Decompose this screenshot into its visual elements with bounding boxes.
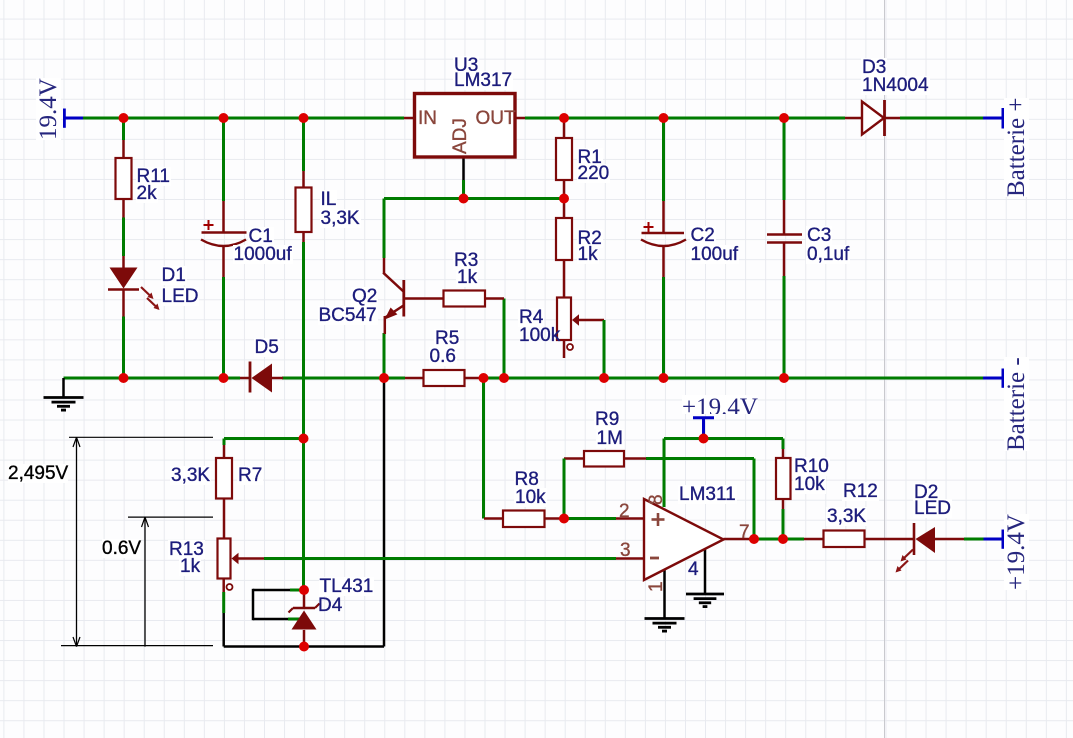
label 1N4004	[861, 76, 930, 95]
ground symbol LM311 pin4	[686, 593, 724, 596]
label C1	[248, 227, 274, 246]
wire R3 right lead	[485, 297, 504, 300]
label TL431	[319, 577, 375, 596]
resistor R3 body	[444, 291, 486, 307]
wire R8 drop from bus	[482, 378, 485, 519]
capacitor C1 body	[202, 231, 247, 234]
resistor R5 body	[424, 370, 465, 386]
LM311 pin2 plus sign	[652, 518, 665, 521]
wire Q2 collector drop	[383, 199, 386, 259]
label BC547	[318, 306, 378, 325]
label R10	[793, 457, 830, 476]
capacitor C2 body	[642, 232, 685, 235]
pin label IN	[418, 109, 437, 128]
potentiometer R13 body	[218, 539, 231, 579]
wire black drop from bus to bottom node	[383, 378, 386, 647]
junction dots TL431	[299, 585, 309, 595]
pin number 8 rotated	[647, 494, 666, 505]
label U3	[453, 56, 479, 75]
wire R9 feedback to output	[646, 457, 754, 460]
terminal 19.4V (blue)	[64, 117, 83, 120]
wire LM311 output row	[724, 538, 750, 541]
wire D3 leads	[845, 117, 862, 120]
label D1	[161, 266, 187, 285]
label R5	[434, 329, 460, 348]
wire R10 bottom lead	[782, 499, 785, 509]
diode D1 LED emission arrows	[141, 287, 152, 298]
resistor R10 body	[776, 458, 791, 499]
junction dot R7 node	[299, 434, 309, 444]
wire R3 to bus drop	[503, 299, 506, 379]
diode D3 1N4004 body	[862, 102, 884, 135]
label 1k	[179, 557, 201, 576]
wire R13 bottom	[222, 579, 225, 593]
wire R9/pin2 node drop	[563, 459, 566, 519]
label R7	[237, 466, 263, 485]
label R11	[136, 167, 171, 186]
capacitor C3 body	[767, 233, 802, 236]
wire R10 top lead	[782, 439, 785, 450]
label 3,3K	[826, 507, 867, 526]
measurement label 0.6V	[102, 539, 141, 558]
ground symbol bottom left	[44, 396, 84, 399]
power symbol +19.4V (blue)	[693, 416, 714, 419]
terminal Batterie + (blue)	[983, 117, 1003, 120]
net label Batterie + rotated	[1004, 98, 1029, 197]
potentiometer R4 body	[557, 298, 571, 341]
wire U3 IN/OUT pin leads	[404, 117, 415, 120]
potentiometer R13 open pin circle	[227, 584, 233, 590]
label R1	[577, 148, 603, 167]
zener D4 TL431 body	[292, 611, 317, 630]
wire ground stem left	[62, 378, 65, 398]
label 100uf	[690, 245, 740, 264]
wire C2 column	[662, 118, 665, 201]
wire D2 to terminal	[935, 538, 964, 541]
potentiometer R13 wiper arrow	[232, 553, 239, 564]
wire R7 node row (2.495V)	[224, 437, 304, 440]
label R13	[168, 540, 205, 559]
wire R11 column	[122, 118, 125, 140]
resistor R12 body	[824, 531, 865, 548]
label C3	[806, 226, 832, 245]
wire Batterie- bus right	[484, 377, 984, 380]
resistor R11 body	[116, 158, 132, 199]
wire C1 column	[222, 118, 225, 201]
power label +19.4V	[682, 395, 758, 414]
pin number 1 rotated	[647, 581, 666, 592]
wire Q2 emitter drop	[383, 333, 386, 378]
label 10k	[793, 475, 826, 494]
pin number 2	[619, 502, 630, 521]
junction dots output node	[749, 534, 759, 544]
diode D1 LED	[110, 268, 138, 289]
junction dots Batterie- bus	[119, 373, 129, 383]
wire R8 left lead	[484, 517, 503, 520]
wire R2 leads	[563, 199, 566, 219]
label 1000uf	[233, 245, 293, 264]
label 1k	[456, 268, 478, 287]
wire TL431 ref loop (black)	[253, 589, 290, 592]
label R2	[577, 229, 603, 248]
label R12	[842, 482, 879, 501]
label 3,3K	[170, 466, 211, 485]
label IL	[320, 190, 338, 209]
junction dots top bus	[119, 113, 129, 123]
wire ADJ row	[384, 197, 564, 200]
label C2	[690, 226, 716, 245]
diode D2 LED body	[913, 523, 916, 555]
label D2	[913, 483, 939, 502]
wire R12 to D2	[865, 538, 915, 541]
regulator U3 LM317 body	[415, 94, 516, 158]
label LED	[161, 287, 200, 306]
label 10k	[514, 488, 547, 507]
op-amp comparator LM311 triangle	[644, 499, 724, 580]
resistor R2 body	[556, 218, 572, 260]
wire TL431 cathode stub	[303, 590, 306, 608]
label 0.6	[429, 347, 457, 366]
wire D5 leads	[240, 377, 250, 380]
label 1k	[577, 245, 599, 264]
wire C3 column	[783, 118, 786, 200]
terminal +19.4V bottom right (blue)	[984, 538, 1004, 541]
wire R4 bottom stub	[563, 340, 566, 358]
wire LM311 pin8 supply	[663, 439, 666, 508]
diode D5 body	[249, 362, 252, 393]
pin number 3	[620, 541, 631, 560]
wire R1 leads	[563, 118, 566, 138]
label LM317	[453, 71, 513, 90]
wire pin2 row	[545, 517, 562, 520]
label D3	[861, 58, 887, 77]
measurement arrow 0.6V vertical	[144, 517, 146, 647]
label R9	[594, 410, 620, 429]
wire D3 cathode to Batterie+ terminal	[900, 117, 983, 120]
ground symbol LM311 pin1	[645, 617, 685, 620]
label 100k (R4)	[519, 326, 560, 345]
junction dot +19.4V power	[699, 434, 709, 444]
label LM311	[678, 485, 737, 504]
label D4	[318, 596, 342, 615]
potentiometer R4 wiper arrow	[572, 314, 579, 325]
resistor R1 body	[556, 138, 572, 180]
darker grid line	[884, 0, 885, 738]
pin label ADJ rotated	[451, 118, 470, 154]
measurement line bottom	[61, 645, 213, 647]
measurement label 2,495V	[8, 464, 68, 483]
resistor R8 body	[503, 511, 545, 528]
potentiometer R4 open pin circle	[567, 344, 573, 350]
wire Batterie- bus left	[64, 377, 241, 380]
wire top bus right segment (OUT to D3)	[525, 117, 845, 120]
label R8	[514, 470, 540, 489]
pin number 7	[739, 523, 750, 542]
junction dots ADJ row	[459, 194, 469, 204]
wire ADJ pin stub	[462, 157, 465, 180]
wire TL431 anode stub	[303, 630, 306, 647]
wire Batterie- bus middle	[282, 377, 405, 380]
measurement arrow 2.495V vertical	[76, 437, 78, 646]
net label +19.4V rotated	[1004, 514, 1029, 590]
terminal Batterie - (blue)	[983, 377, 1003, 380]
label Q2	[351, 287, 378, 306]
label 1M	[596, 429, 624, 448]
label 2k	[136, 184, 158, 203]
wire bottom node (black)	[224, 645, 384, 648]
pin label OUT	[476, 109, 516, 128]
wire IL column / TL431 cathode net	[302, 118, 305, 171]
wire R9 leads	[564, 457, 584, 460]
wire R13 wiper to LM311 pin3	[238, 557, 264, 560]
label 3,3K	[320, 209, 361, 228]
diode D2 LED emission arrows	[902, 550, 913, 561]
label D5	[254, 338, 280, 357]
resistor R7 body	[216, 458, 232, 499]
resistor R9 body	[584, 451, 624, 467]
label LED	[913, 499, 952, 518]
pin number 4	[688, 560, 699, 579]
measurement line top 2.495V	[69, 436, 213, 438]
wire LM311 pin1 stem	[663, 569, 666, 619]
wire +19.4V row	[664, 437, 783, 440]
measurement line top 0.6V	[128, 516, 213, 518]
wire R7 to R13	[223, 499, 226, 539]
wire R4 wiper drop	[578, 319, 604, 322]
label R4	[518, 308, 544, 327]
net label Batterie - rotated	[1004, 357, 1029, 451]
label 0,1uf	[806, 245, 850, 264]
transistor Q2 BC547	[383, 258, 386, 274]
wire R5 leads	[405, 377, 424, 380]
net label 19.4V rotated	[36, 78, 61, 140]
wire R3 base lead / Q2 base	[404, 297, 444, 300]
label 220	[577, 164, 611, 183]
label R3	[453, 251, 479, 270]
junction dot pin2 node	[559, 514, 569, 524]
wire top bus left segment (19.4V rail)	[83, 117, 404, 120]
resistor IL body	[296, 188, 312, 233]
wire LM311 pin4 stem	[704, 548, 707, 595]
LM311 pin3 minus sign	[650, 557, 659, 560]
